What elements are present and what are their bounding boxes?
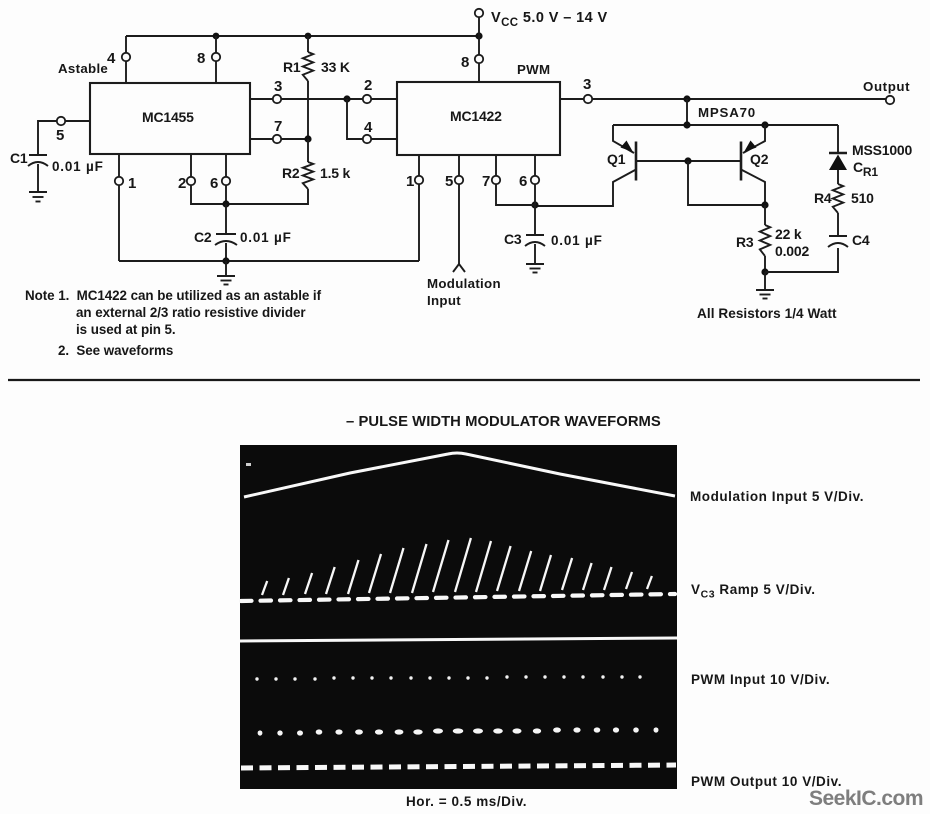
transistor Q1 [535, 125, 636, 206]
junction ground rail [222, 257, 229, 264]
junction pin8 rail [213, 33, 220, 40]
wire output node down [686, 99, 688, 125]
svg-text:0.01 µF: 0.01 µF [551, 233, 603, 248]
diode CR1 MSS1000 [829, 125, 847, 184]
svg-text:C2: C2 [194, 229, 212, 245]
svg-text:4: 4 [364, 119, 373, 136]
pin 4 MC1455 [122, 53, 130, 61]
pin 8 MC1422 [475, 55, 483, 63]
junction rail center [683, 121, 690, 128]
label Modulation Input [427, 276, 501, 308]
wire pin 2 MC1455 [191, 154, 226, 204]
svg-text:5: 5 [56, 127, 64, 144]
wire pin 1 MC1455 [118, 154, 120, 261]
svg-text:0.01 µF: 0.01 µF [52, 159, 104, 174]
pwm output dashes [241, 765, 676, 768]
modulation input chevron [453, 264, 465, 272]
capacitor C1 [28, 155, 48, 192]
pwm input dots [255, 675, 641, 680]
svg-text:5: 5 [445, 173, 453, 190]
svg-text:3: 3 [274, 78, 282, 95]
svg-text:8: 8 [461, 54, 469, 71]
wire VCC to pin 8 MC1422 [478, 17, 480, 82]
pin 7 MC1422 [492, 176, 500, 184]
resistor R3 [760, 205, 770, 272]
ramp baseline dashes [241, 594, 675, 601]
svg-text:7: 7 [274, 118, 282, 135]
wire R4 to C4 [837, 213, 839, 236]
svg-text:R3: R3 [736, 234, 754, 250]
svg-text:0.01 µF: 0.01 µF [240, 230, 292, 245]
svg-text:MC1422: MC1422 [450, 108, 502, 124]
pin 3 MC1455 [273, 95, 281, 103]
capacitor C2 [215, 204, 237, 261]
svg-text:Hor. = 0.5 ms/Div.: Hor. = 0.5 ms/Div. [406, 794, 527, 809]
svg-text:8: 8 [197, 50, 205, 67]
svg-text:R4: R4 [814, 190, 832, 206]
svg-text:Note 1. MC1422 can be utilize: Note 1. MC1422 can be utilized as an ast… [25, 288, 322, 303]
svg-text:1: 1 [406, 173, 414, 190]
svg-text:510: 510 [851, 190, 874, 206]
svg-text:22 k: 22 k [775, 226, 802, 242]
wire pin 8 MC1455 [215, 36, 217, 83]
svg-text:C4: C4 [852, 232, 870, 248]
junction R1 rail [305, 33, 312, 40]
ground C2 [217, 261, 235, 285]
junction R3 top [761, 201, 768, 208]
op-amp U2 MC1422 [397, 82, 560, 155]
pin 2 MC1455 [187, 177, 195, 185]
capacitor C3 [525, 205, 545, 264]
node C3 junction [531, 201, 538, 208]
junction base node [684, 157, 691, 164]
svg-text:33 K: 33 K [321, 59, 350, 75]
wire pin 7 MC1455 [250, 138, 308, 140]
wire pin 4 MC1455 [125, 36, 127, 83]
svg-text:4: 4 [107, 50, 116, 67]
svg-text:2: 2 [364, 77, 372, 94]
wire ground rail [119, 260, 419, 262]
wire node A to pin 4 MC1422 [347, 99, 397, 139]
svg-text:1.5 k: 1.5 k [320, 165, 351, 181]
svg-text:MSS1000: MSS1000 [852, 142, 912, 158]
svg-text:3: 3 [583, 76, 591, 93]
wire pin 7 MC1422 [496, 155, 535, 205]
wire pin 1 MC1422 [418, 155, 420, 261]
note text [25, 288, 322, 358]
svg-text:PWM Input 10 V/Div.: PWM Input 10 V/Div. [691, 672, 830, 687]
wire base node down [688, 161, 765, 205]
ground C1 [29, 192, 47, 202]
svg-text:CR1: CR1 [853, 159, 878, 179]
svg-text:Input: Input [427, 293, 461, 308]
svg-text:6: 6 [519, 173, 527, 190]
ground C3 [526, 264, 544, 273]
svg-text:R1: R1 [283, 59, 301, 75]
svg-text:PWM: PWM [517, 62, 550, 77]
pin 6 MC1422 [531, 176, 539, 184]
resistor R4 [833, 184, 843, 213]
wire top VCC rail [126, 35, 480, 37]
pin 2 MC1422 [363, 95, 371, 103]
svg-text:Output: Output [863, 79, 910, 94]
junction output node [683, 95, 690, 102]
svg-text:an external 2/3 ratio resistiv: an external 2/3 ratio resistive divider [76, 305, 306, 320]
pwm mid dash row [258, 727, 659, 735]
capacitor C4 [828, 236, 848, 247]
output terminal [886, 96, 894, 104]
svg-text:is used at pin 5.: is used at pin 5. [76, 322, 176, 337]
svg-text:VCC 5.0 V – 14 V: VCC 5.0 V – 14 V [491, 10, 608, 29]
node A junction [343, 95, 350, 102]
transistor Q2 [741, 125, 765, 205]
svg-text:R2: R2 [282, 165, 300, 181]
svg-text:7: 7 [482, 173, 490, 190]
svg-text:2: 2 [178, 175, 186, 192]
wire R3 bottom to C4 [765, 248, 838, 272]
svg-text:2. See waveforms: 2. See waveforms [58, 343, 173, 358]
svg-text:– PULSE WIDTH MODULATOR WAVEFO: – PULSE WIDTH MODULATOR WAVEFORMS [346, 414, 661, 430]
svg-text:MC1455: MC1455 [142, 109, 194, 125]
svg-text:All Resistors 1/4 Watt: All Resistors 1/4 Watt [697, 306, 837, 321]
wire base Q1 Q2 [637, 160, 740, 162]
wire transistor rail [613, 124, 838, 126]
wire pin 3 MC1422 output [560, 98, 886, 100]
pin 6 MC1455 [222, 177, 230, 185]
power terminal VCC [475, 9, 483, 17]
svg-text:C1: C1 [10, 150, 28, 166]
photo speck [246, 463, 251, 466]
separator trace [240, 638, 677, 641]
junction R1 R2 pin7 [304, 135, 311, 142]
svg-text:Q2: Q2 [750, 151, 769, 167]
svg-text:C3: C3 [504, 231, 522, 247]
photo background [240, 445, 677, 789]
svg-text:Modulation: Modulation [427, 276, 501, 291]
ground R3 [756, 272, 774, 299]
pin 1 MC1422 [415, 176, 423, 184]
pin 3 MC1422 [584, 95, 592, 103]
divider rule [8, 379, 920, 381]
wire pin 6 MC1422 [534, 155, 536, 205]
ramp trace slashes [262, 538, 652, 595]
junction rail Q2 [761, 121, 768, 128]
svg-text:Q1: Q1 [607, 151, 626, 167]
modulation input trace [244, 453, 675, 497]
pin 5 MC1455 [57, 117, 65, 125]
pin 5 MC1422 [455, 176, 463, 184]
svg-text:Modulation Input 5 V/Div.: Modulation Input 5 V/Div. [690, 489, 864, 504]
pin 1 MC1455 [115, 177, 123, 185]
pin 8 MC1455 [212, 53, 220, 61]
op-amp U1 MC1455 [90, 83, 250, 154]
resistor R2 [226, 139, 313, 204]
svg-text:MPSA70: MPSA70 [698, 105, 756, 120]
wire pin 6 MC1455 [225, 154, 227, 204]
svg-text:Astable: Astable [58, 61, 108, 76]
wire pin 5 MC1455 to C1 [38, 121, 90, 155]
pin 7 MC1455 [273, 135, 281, 143]
wire pin 5 MC1422 modulation [458, 155, 460, 264]
svg-text:6: 6 [210, 175, 218, 192]
junction VCC rail [475, 32, 482, 39]
svg-text:SeekIC.com: SeekIC.com [809, 787, 923, 810]
junction R3 bottom [761, 268, 768, 275]
wire pin 3 MC1455 to pin 2 MC1422 [250, 98, 397, 100]
svg-text:1: 1 [128, 175, 136, 192]
junction pin 2-6 node [222, 200, 229, 207]
svg-text:0.002: 0.002 [775, 243, 809, 259]
resistor R1 [303, 36, 313, 139]
pin 4 MC1422 [363, 135, 371, 143]
svg-text:VC3 Ramp 5 V/Div.: VC3 Ramp 5 V/Div. [691, 582, 816, 601]
